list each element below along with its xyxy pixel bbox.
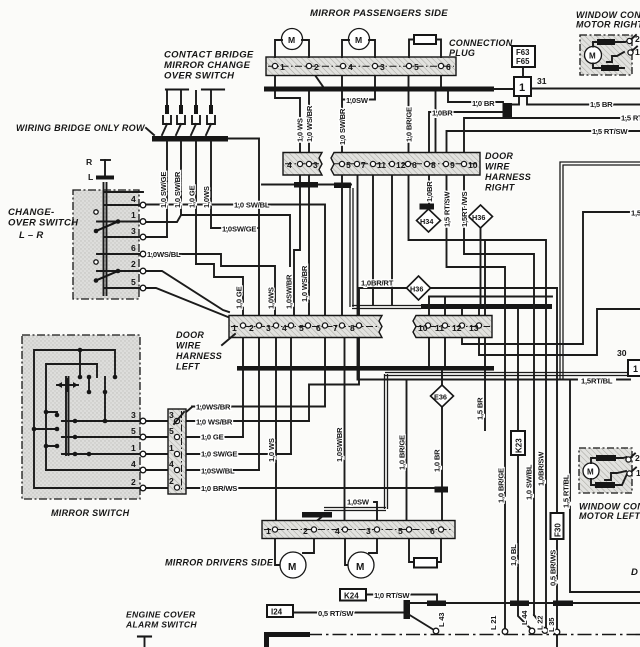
svg-text:M: M [288,562,296,573]
svg-text:CONTACT BRIDGE: CONTACT BRIDGE [164,50,254,61]
svg-text:L – R: L – R [19,230,44,241]
svg-text:2: 2 [635,34,640,44]
svg-text:1,0BR/RT: 1,0BR/RT [361,279,394,288]
svg-text:HARNESS: HARNESS [485,172,531,182]
svg-text:1,0SW/BL: 1,0SW/BL [201,467,235,476]
svg-text:3: 3 [313,160,318,170]
svg-text:1,0 SW/GE: 1,0 SW/GE [159,172,168,208]
svg-text:4: 4 [287,160,292,170]
svg-text:8: 8 [431,160,436,170]
svg-text:HARNESS: HARNESS [176,351,222,361]
svg-text:1,0 BL: 1,0 BL [509,544,518,566]
svg-text:1: 1 [635,47,640,57]
svg-text:1: 1 [169,443,174,453]
svg-text:M: M [589,52,596,61]
svg-text:OVER SWITCH: OVER SWITCH [8,218,79,229]
svg-text:4: 4 [131,194,136,204]
svg-text:1,5 RT/BL: 1,5 RT/BL [562,474,571,508]
svg-text:1,5 RT/SW: 1,5 RT/SW [592,127,628,136]
svg-text:1,0 WS/BR: 1,0 WS/BR [300,265,309,302]
svg-text:1: 1 [633,364,638,374]
svg-text:2: 2 [303,526,308,536]
svg-text:DOOR: DOOR [176,330,204,340]
svg-text:K24: K24 [344,592,359,601]
svg-text:1: 1 [131,443,136,453]
svg-text:3: 3 [366,526,371,536]
svg-text:8: 8 [350,323,355,333]
svg-text:13: 13 [469,323,479,333]
svg-text:MIRROR DRIVERS SIDE: MIRROR DRIVERS SIDE [165,558,274,568]
svg-text:5: 5 [169,426,174,436]
svg-text:K23: K23 [515,438,524,453]
svg-text:1,5RT/BL: 1,5RT/BL [581,377,613,386]
svg-text:3: 3 [266,323,271,333]
svg-text:1,0 SW/BR: 1,0 SW/BR [173,171,182,208]
svg-text:5: 5 [398,526,403,536]
svg-text:1: 1 [131,210,136,220]
svg-text:DOOR: DOOR [485,151,513,161]
svg-text:3: 3 [380,62,385,72]
svg-text:CONNECTION: CONNECTION [449,38,513,48]
svg-text:MIRROR PASSENGERS SIDE: MIRROR PASSENGERS SIDE [310,8,448,19]
svg-text:1,0SW: 1,0SW [347,498,370,507]
svg-text:11: 11 [377,160,386,170]
svg-text:1,0 BR/WS: 1,0 BR/WS [201,484,237,493]
svg-text:6: 6 [316,323,321,333]
svg-text:5: 5 [131,277,136,287]
svg-text:30: 30 [617,348,627,358]
svg-text:0,5 RT/SW: 0,5 RT/SW [318,609,354,618]
svg-text:3: 3 [169,410,174,420]
svg-text:12: 12 [452,323,462,333]
svg-text:1: 1 [280,62,285,72]
svg-text:WIRING BRIDGE ONLY ROW: WIRING BRIDGE ONLY ROW [16,123,146,133]
svg-text:1,0 GE: 1,0 GE [201,433,224,442]
svg-text:1: 1 [232,323,237,333]
svg-text:6: 6 [412,160,417,170]
svg-text:M: M [356,562,364,573]
svg-text:L 35: L 35 [547,617,556,632]
svg-text:1,0SW: 1,0SW [346,96,369,105]
svg-text:1,0BR: 1,0BR [425,181,434,202]
svg-text:M: M [355,35,362,45]
svg-text:LEFT: LEFT [176,362,201,372]
svg-text:OVER SWITCH: OVER SWITCH [164,71,235,82]
svg-text:1,0WS: 1,0WS [267,287,276,309]
svg-text:3: 3 [131,410,136,420]
svg-text:1,0 WS: 1,0 WS [267,438,276,462]
svg-text:5: 5 [299,323,304,333]
svg-text:1,5RT /WS: 1,5RT /WS [460,192,469,227]
svg-text:1,0 GE: 1,0 GE [188,185,197,208]
svg-text:1,5: 1,5 [631,209,640,218]
svg-text:2: 2 [314,62,319,72]
svg-text:2: 2 [131,259,136,269]
svg-text:MOTOR LEFT: MOTOR LEFT [579,511,640,521]
svg-text:1,0 BR/GE: 1,0 BR/GE [398,435,407,470]
svg-text:7: 7 [333,323,338,333]
svg-text:MOTOR RIGHT: MOTOR RIGHT [576,20,640,30]
svg-text:1,5 BR: 1,5 BR [476,397,485,420]
svg-text:1,0 BR/GE: 1,0 BR/GE [405,107,414,142]
svg-text:6: 6 [131,243,136,253]
svg-text:2: 2 [635,453,640,463]
svg-text:1,0 WS/BR: 1,0 WS/BR [196,418,233,427]
svg-text:L 21: L 21 [489,615,498,630]
svg-text:L 44: L 44 [520,610,529,625]
svg-text:1,5 RT/SW: 1,5 RT/SW [443,191,452,227]
svg-text:I24: I24 [271,608,283,617]
svg-text:H34: H34 [420,217,434,226]
svg-text:1,5 BR: 1,5 BR [590,100,613,109]
svg-text:2: 2 [249,323,254,333]
svg-text:D: D [631,567,638,578]
svg-text:1,0 SW/BL: 1,0 SW/BL [234,201,270,210]
svg-text:1,0BR: 1,0BR [432,109,453,118]
svg-text:4: 4 [169,459,174,469]
svg-text:4: 4 [282,323,287,333]
svg-text:1: 1 [266,526,271,536]
svg-text:5: 5 [131,426,136,436]
svg-text:L 22: L 22 [536,616,545,630]
svg-text:7: 7 [361,160,366,170]
svg-text:5: 5 [346,160,351,170]
svg-text:R: R [86,157,93,167]
svg-text:F65: F65 [516,57,530,66]
svg-text:1,0 BR/GE: 1,0 BR/GE [497,468,506,503]
svg-text:1,0 SW/GE: 1,0 SW/GE [201,450,237,459]
svg-text:1,0 SW/BR: 1,0 SW/BR [338,108,347,145]
svg-text:3: 3 [131,226,136,236]
svg-text:10: 10 [418,323,428,333]
svg-text:L 43: L 43 [437,613,446,627]
svg-text:E36: E36 [434,393,447,402]
svg-text:1: 1 [636,468,640,478]
svg-text:1,0BR/SW: 1,0BR/SW [537,451,546,486]
svg-text:ALARM SWITCH: ALARM SWITCH [125,620,197,630]
svg-text:1: 1 [519,82,525,94]
svg-text:1,0WS/BR: 1,0WS/BR [196,403,231,412]
svg-text:MIRROR CHANGE: MIRROR CHANGE [164,60,251,71]
svg-text:CHANGE-: CHANGE- [8,207,54,218]
svg-text:11: 11 [435,323,444,333]
svg-text:9: 9 [450,160,455,170]
svg-text:1,5 RT: 1,5 RT [621,114,640,123]
svg-text:2: 2 [169,476,174,486]
svg-text:1,0WS: 1,0WS [202,186,211,208]
svg-text:4: 4 [348,62,353,72]
svg-text:1,0 BR: 1,0 BR [472,99,495,108]
svg-text:1,0 WS: 1,0 WS [296,118,305,142]
svg-text:WIRE: WIRE [485,162,510,172]
svg-text:1,0SW/BR: 1,0SW/BR [285,274,294,309]
svg-text:2: 2 [131,477,136,487]
svg-text:WIRE: WIRE [176,341,201,351]
svg-text:6: 6 [430,526,435,536]
svg-text:PLUG: PLUG [449,48,475,58]
svg-text:M: M [288,35,295,45]
svg-text:12: 12 [396,160,406,170]
svg-text:6: 6 [446,62,451,72]
svg-text:1,0 BR: 1,0 BR [433,449,442,472]
svg-text:1,0SW/BR: 1,0SW/BR [335,427,344,462]
svg-text:MIRROR SWITCH: MIRROR SWITCH [51,508,130,518]
svg-text:H36: H36 [410,285,423,294]
svg-text:F63: F63 [516,48,530,57]
svg-text:WINDOW CONTA: WINDOW CONTA [579,502,640,512]
svg-text:1,0 GE: 1,0 GE [235,286,244,309]
svg-text:F30: F30 [554,523,563,537]
svg-text:H36: H36 [472,213,485,222]
svg-text:1,0 SW/BL: 1,0 SW/BL [525,464,534,500]
svg-text:1,0 WS/BR: 1,0 WS/BR [305,105,314,142]
svg-text:RIGHT: RIGHT [485,183,516,193]
svg-text:4: 4 [131,459,136,469]
svg-text:5: 5 [414,62,419,72]
svg-text:1,0 RT/SW: 1,0 RT/SW [374,591,410,600]
svg-text:ENGINE COVER: ENGINE COVER [126,610,196,620]
svg-text:10: 10 [468,160,478,170]
svg-text:L: L [88,172,93,182]
svg-text:0,5 BR/WS: 0,5 BR/WS [549,550,558,586]
svg-text:1,0WS/BL: 1,0WS/BL [147,250,181,259]
svg-text:WINDOW CONTA: WINDOW CONTA [576,10,640,20]
svg-text:1,0SW/GE: 1,0SW/GE [222,225,256,234]
svg-text:4: 4 [335,526,340,536]
svg-text:31: 31 [537,76,547,86]
svg-text:M: M [587,468,594,477]
